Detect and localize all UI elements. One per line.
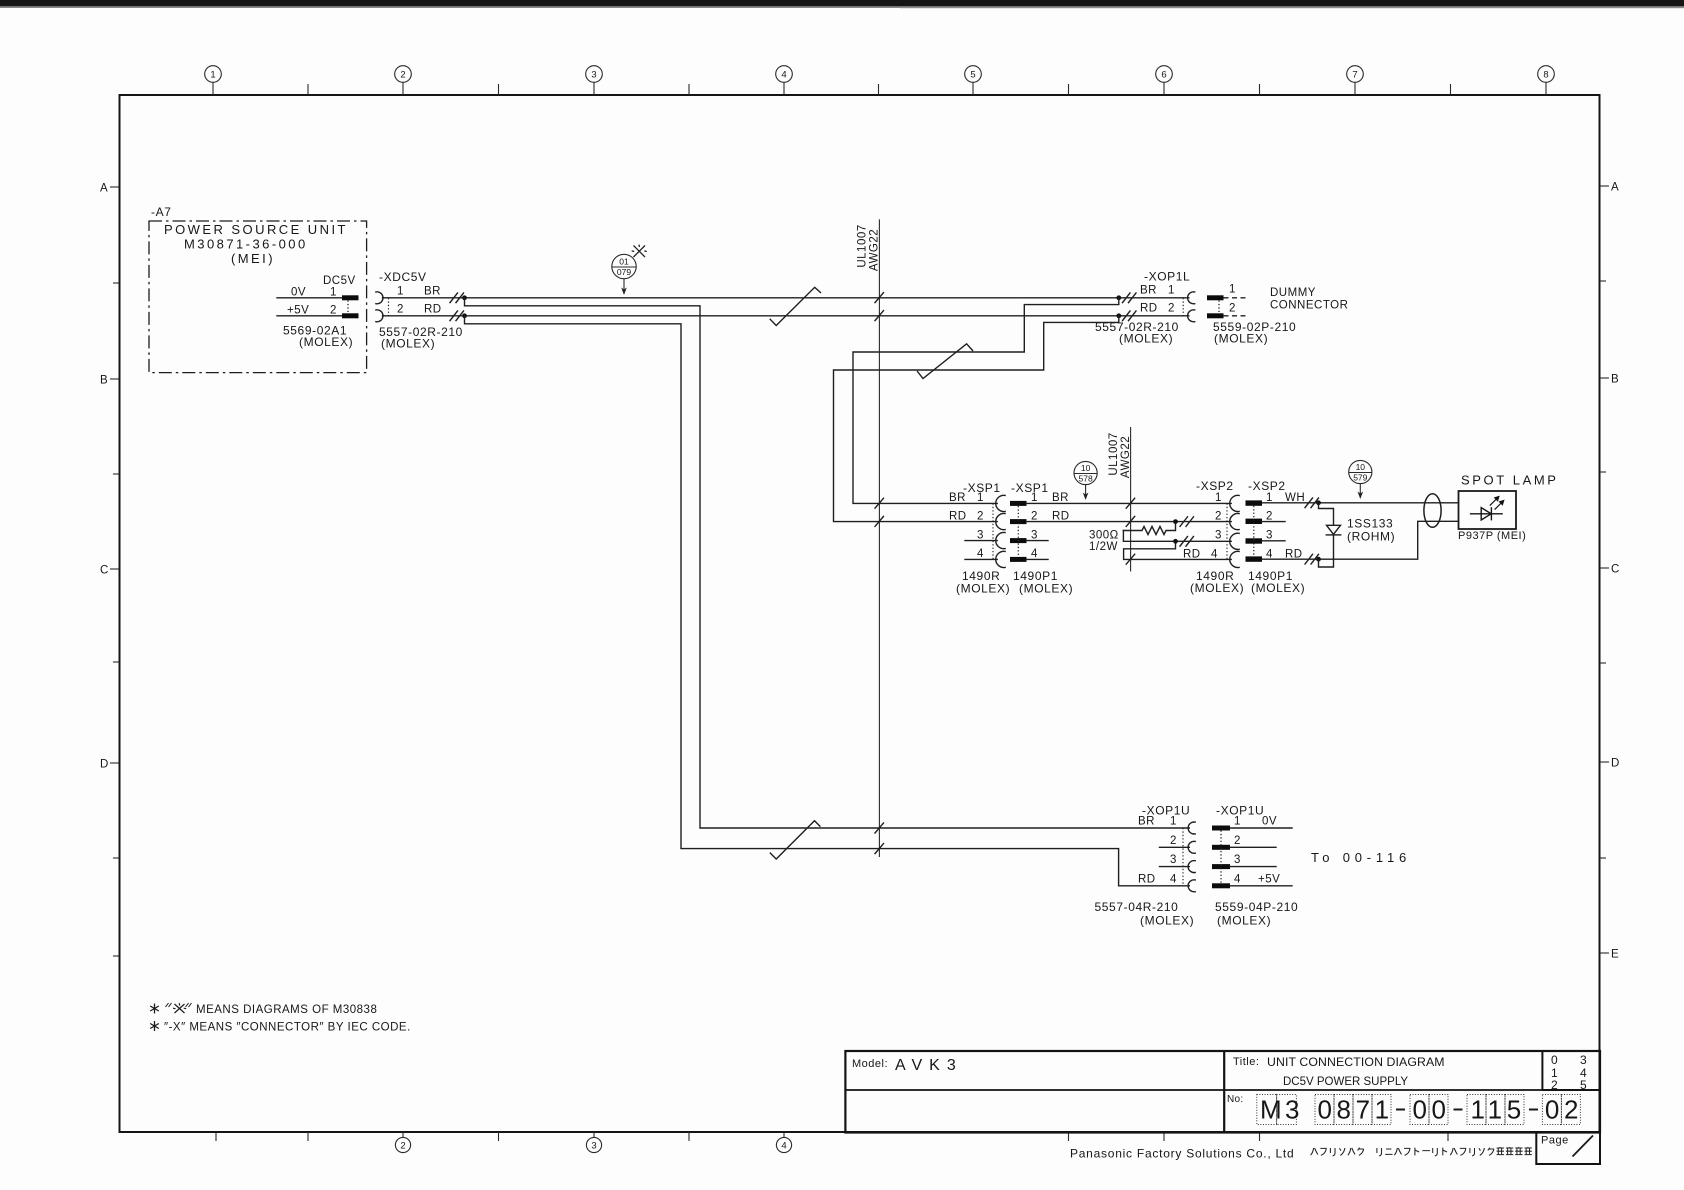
svg-text:2: 2 [1551, 1078, 1558, 1092]
svg-text:5557-04R-210: 5557-04R-210 [1095, 900, 1179, 914]
svg-text:(MOLEX): (MOLEX) [956, 582, 1010, 596]
wire RD XDC5V.2 to XOP1L.2 [383, 315, 1189, 317]
svg-text:A: A [100, 183, 108, 195]
wire BR branch XOP1L to XSP1.1 [853, 298, 1119, 504]
connector XDC5V part label 5557-02R-210 [379, 325, 463, 351]
connector XSP1 part label 1490R [956, 569, 1010, 596]
connector 5559-02P-210 part label [1213, 320, 1296, 346]
svg-text:579: 579 [1353, 473, 1367, 483]
reference arrow down to BR wire [621, 279, 627, 295]
svg-text:2: 2 [977, 510, 984, 522]
drawing number cells 02 (dotted boxes) [1542, 1095, 1580, 1125]
connector XOP1L receptacle link (dotted) [1182, 298, 1184, 316]
svg-text:5: 5 [970, 70, 975, 81]
top ruler column marker 8 [1538, 66, 1555, 95]
junction dot RD diode node [1316, 557, 1321, 562]
bottom ruler ticks [216, 1132, 1448, 1141]
svg-text:2: 2 [1229, 303, 1236, 315]
wire count marks // on RD wire [1305, 554, 1319, 564]
svg-text:4: 4 [977, 548, 984, 560]
svg-text:UNIT CONNECTION DIAGRAM: UNIT CONNECTION DIAGRAM [1267, 1055, 1445, 1069]
wire XOP1U.4 stub to +5V [1230, 885, 1292, 887]
page box [1536, 1133, 1600, 1165]
svg-text:300Ω: 300Ω [1089, 530, 1119, 542]
title block horizontal divider [845, 1089, 1600, 1091]
junction dot XOP1L.2 branch [1116, 313, 1121, 318]
svg-text:(MOLEX): (MOLEX) [1119, 332, 1173, 346]
connector XSP1 receptacle contact 1 [996, 495, 1005, 511]
svg-text:-XOP1L: -XOP1L [1144, 270, 1190, 284]
svg-text:3: 3 [977, 529, 984, 541]
svg-text:8: 8 [1543, 70, 1548, 81]
left ruler row letter D [100, 759, 119, 771]
svg-text:UL1007: UL1007 [1108, 432, 1120, 475]
svg-text:B: B [100, 375, 108, 387]
svg-text:1SS133: 1SS133 [1347, 517, 1393, 531]
svg-text:3: 3 [1266, 530, 1273, 542]
connector XOP1L receptacle contact 1 [1188, 292, 1195, 304]
svg-text:1: 1 [1031, 492, 1038, 504]
svg-text:578: 578 [1079, 474, 1093, 484]
svg-text:10: 10 [1356, 462, 1366, 472]
svg-text:3: 3 [1234, 854, 1241, 866]
cable bundle marker on BR/RD pair [770, 287, 820, 325]
top ruler column marker 3 [586, 66, 603, 95]
connector XDC5V receptacle contact 1 [376, 292, 383, 304]
connector XSP1 plug link (dotted) [1017, 506, 1019, 557]
junction dot XSP2 pin2 node [1173, 519, 1178, 524]
wire count marks // on BR near XOP1L [1123, 293, 1137, 303]
cable UL1007 AWG22 run line (right) [1130, 427, 1132, 572]
svg-text:3: 3 [1580, 1053, 1587, 1067]
junction dot XSP2 pin3 node [1173, 539, 1178, 544]
wire XOP1U.3 stub [1230, 866, 1276, 868]
svg-text:3: 3 [1031, 529, 1038, 541]
svg-text:SPOT LAMP: SPOT LAMP [1461, 473, 1559, 488]
connector XOP1U receptacle contact 2 [1188, 841, 1195, 853]
cable sleeve oval [1424, 494, 1441, 528]
connector XOP1U part label 5557-04R-210 [1095, 900, 1195, 928]
svg-text:0V: 0V [1262, 816, 1277, 828]
svg-text:1: 1 [330, 287, 337, 299]
svg-text:DC5V POWER SUPPLY: DC5V POWER SUPPLY [1283, 1076, 1408, 1088]
svg-text:To 00-116: To 00-116 [1311, 850, 1411, 865]
svg-text:2: 2 [330, 305, 337, 317]
svg-text:+5V: +5V [1258, 873, 1280, 885]
svg-text:B: B [1611, 374, 1619, 386]
diode D 1SS133 symbol [1326, 525, 1340, 535]
svg-text:-A7: -A7 [151, 205, 171, 219]
bottom ruler column marker 3 [586, 1132, 601, 1153]
connector XSP2 part label 1490R [1190, 569, 1244, 595]
connector XSP1 unused stub pin 4 right [1027, 558, 1049, 560]
wire RD branch down to XOP1U.4 [465, 316, 1190, 886]
bottom ruler column digits [400, 1141, 786, 1152]
svg-text:A: A [1611, 182, 1619, 194]
wire 0V inside unit [277, 297, 342, 299]
svg-text:AWG22: AWG22 [869, 229, 881, 271]
svg-text:RD: RD [1140, 303, 1158, 315]
connector XOP1U unused stub pin 2 left [1160, 846, 1190, 848]
cable bundle marker on XOP1U feed pair [770, 821, 820, 859]
wire XOP1U.2 stub [1230, 846, 1276, 848]
svg-text:4: 4 [781, 1141, 786, 1152]
resistor value label 300ohm 1/2W [1089, 530, 1119, 554]
connector XSP2 male pin 2 [1246, 519, 1263, 524]
wire count marks // on XSP2 pin2 wire [1180, 517, 1194, 527]
note 1 asterisk [150, 1004, 159, 1014]
connector XSP1 male pin 1 [1010, 501, 1027, 506]
title block vertical divider [1223, 1051, 1225, 1133]
svg-text:CONNECTOR: CONNECTOR [1270, 300, 1348, 312]
svg-text:RD: RD [1052, 510, 1070, 522]
svg-text:00: 00 [1413, 1095, 1451, 1125]
revision numbers column 1 [1551, 1053, 1558, 1092]
connector XOP1U receptacle contact 1 [1188, 822, 1195, 834]
revision numbers column 2 [1580, 1053, 1587, 1092]
connector XSP1 part label 1490P1 [1013, 569, 1073, 596]
drawing number cells M3 (dotted boxes) [1257, 1095, 1297, 1125]
svg-text:(MOLEX): (MOLEX) [1217, 914, 1271, 928]
connector XOP1U unused stub pin 3 left [1160, 866, 1190, 868]
revision mini box [1542, 1051, 1600, 1090]
drawing number cells 0871 (dotted boxes) [1315, 1095, 1391, 1125]
page slash [1573, 1136, 1594, 1157]
svg-text:(ROHM): (ROHM) [1347, 530, 1395, 544]
cable crossing ticks on UL1007 left line [875, 293, 884, 854]
svg-text:0871: 0871 [1318, 1095, 1394, 1125]
svg-text:079: 079 [617, 267, 631, 277]
svg-text:RD: RD [949, 510, 967, 522]
svg-text:1: 1 [1168, 285, 1175, 297]
dummy connector male pin 2 [1207, 313, 1224, 318]
connector XSP2 male pin 3 [1246, 538, 1263, 543]
connector XOP1U receptacle link (dotted) [1182, 828, 1184, 886]
top ruler column marker 7 [1347, 66, 1364, 95]
svg-text:4: 4 [1234, 873, 1241, 885]
connector XSP2 male pin 1 [1246, 500, 1263, 505]
svg-text:3: 3 [591, 1141, 596, 1152]
junction dot XOP1L.1 branch [1116, 295, 1121, 300]
svg-text:2: 2 [1168, 303, 1175, 315]
spot lamp enclosure box [1459, 491, 1517, 529]
left ruler half ticks [113, 283, 119, 956]
connector XSP1 receptacle contact 3 [996, 533, 1005, 549]
left ruler row letter B [100, 375, 119, 387]
connector XDC5V receptacle contact 2 [376, 310, 383, 322]
connector XOP1L receptacle contact 2 [1188, 310, 1195, 322]
right ruler row letter B [1600, 374, 1619, 386]
right ruler row letter D [1600, 758, 1620, 770]
svg-text:2: 2 [397, 304, 404, 316]
svg-text:BR: BR [949, 492, 966, 504]
right ruler row letter E [1600, 949, 1619, 961]
svg-text:3: 3 [591, 70, 596, 81]
bottom ruler column marker 4 [776, 1132, 791, 1153]
drawing number cells 00 (dotted boxes) [1410, 1095, 1448, 1125]
svg-text:+5V: +5V [287, 305, 309, 317]
svg-text:3: 3 [1170, 854, 1177, 866]
connector XSP2 receptacle contact 1 [1230, 495, 1239, 511]
top ruler column marker 4 [776, 66, 793, 95]
svg-text:No:: No: [1227, 1094, 1243, 1105]
connector XSP2 unused stub pin 3 right [1262, 540, 1285, 542]
dummy connector stub 1 (dashed) [1224, 297, 1248, 299]
wire RD XSP2.4 to lamp [1262, 521, 1459, 559]
top ruler half ticks [308, 84, 1451, 95]
svg-text:4: 4 [1211, 548, 1218, 560]
svg-text:2: 2 [1170, 835, 1177, 847]
svg-text:Model:: Model: [852, 1058, 888, 1070]
diode D 1SS133 anode lead [1319, 503, 1334, 526]
wire BR XDC5V.1 to XOP1L.1 [383, 297, 1189, 299]
right ruler row letter C [1600, 564, 1620, 576]
svg-text:Title:: Title: [1233, 1056, 1259, 1068]
svg-text:-XSP1: -XSP1 [1011, 481, 1049, 495]
top ruler column digits [210, 70, 1548, 81]
svg-text:2: 2 [1234, 835, 1241, 847]
svg-text:(MOLEX): (MOLEX) [1214, 332, 1268, 346]
note 1 kome mark in quotes [166, 1003, 192, 1013]
svg-text:(MOLEX): (MOLEX) [1190, 581, 1244, 595]
svg-text:2: 2 [400, 1141, 405, 1152]
svg-text:5: 5 [1580, 1078, 1587, 1092]
connector XSP1 unused stub pin 4 left [965, 558, 997, 560]
right ruler half ticks [1600, 281, 1606, 858]
top ruler column marker 1 [205, 66, 222, 95]
wire count marks // on WH wire [1305, 498, 1319, 508]
svg-text:(MOLEX): (MOLEX) [299, 335, 353, 349]
dash separator 2 [1454, 1109, 1463, 1111]
top ruler column marker 5 [965, 66, 982, 95]
svg-text:(MOLEX): (MOLEX) [1251, 581, 1305, 595]
connector XSP1 male pin 4 [1010, 557, 1027, 562]
svg-text:1: 1 [1215, 492, 1222, 504]
svg-text:BR: BR [1052, 492, 1069, 504]
svg-text:MEANS DIAGRAMS OF M30838: MEANS DIAGRAMS OF M30838 [196, 1004, 377, 1016]
svg-text:1: 1 [1234, 816, 1241, 828]
svg-text:UL1007: UL1007 [857, 224, 869, 267]
svg-text:BR: BR [1140, 285, 1157, 297]
reference circle 10/578 [1074, 461, 1097, 484]
svg-text:(MEI): (MEI) [231, 251, 275, 266]
svg-text:M3: M3 [1260, 1095, 1303, 1125]
top ruler column marker 6 [1156, 66, 1173, 95]
connector XSP2 unused stub pin 2 right [1262, 521, 1285, 523]
svg-text:2: 2 [1031, 510, 1038, 522]
connector 5569-02A1 part label [283, 324, 353, 350]
connector XSP2 part label 1490P1 [1248, 569, 1305, 595]
svg-text:4: 4 [781, 70, 786, 81]
svg-text:01: 01 [619, 257, 629, 267]
svg-text:1/2W: 1/2W [1089, 541, 1118, 553]
connector XOP1U male pin 4 [1212, 883, 1230, 888]
svg-text:1: 1 [1229, 284, 1236, 296]
connector XSP1 unused stub pin 3 right [1027, 540, 1049, 542]
LED light emission arrows [1490, 497, 1504, 510]
svg-text:115: 115 [1471, 1095, 1526, 1125]
wire count marks // on XSP2 pin3 wire [1180, 537, 1194, 547]
svg-text:RD: RD [424, 304, 442, 316]
dummy connector name label [1270, 287, 1348, 312]
connector XSP2 receptacle contact 3 [1230, 533, 1239, 549]
svg-text:M30871-36-000: M30871-36-000 [184, 237, 308, 252]
svg-text:1: 1 [397, 286, 404, 298]
svg-text:7: 7 [1352, 70, 1357, 81]
svg-text:(MOLEX): (MOLEX) [1019, 582, 1073, 596]
svg-text:3: 3 [1215, 530, 1222, 542]
svg-text:2: 2 [400, 70, 405, 81]
svg-text:2: 2 [1215, 510, 1222, 522]
svg-text:(MOLEX): (MOLEX) [381, 337, 435, 351]
svg-text:-XSP2: -XSP2 [1248, 479, 1286, 493]
connector XSP1 receptacle link (dotted) [992, 503, 994, 559]
left ruler row letter A [100, 183, 119, 195]
svg-text:5559-04P-210: 5559-04P-210 [1215, 900, 1298, 914]
svg-text:1: 1 [977, 492, 984, 504]
svg-text:-XDC5V: -XDC5V [379, 270, 427, 284]
wire WH XSP2.1 to lamp [1262, 502, 1459, 504]
wire count marks // on RD near XOP1L [1123, 311, 1137, 321]
note 2 asterisk [150, 1021, 159, 1031]
svg-text:″-X″ MEANS ″CONNECTOR″ BY IEC: ″-X″ MEANS ″CONNECTOR″ BY IEC CODE. [164, 1022, 411, 1034]
svg-text:0V: 0V [291, 287, 306, 299]
svg-text:0: 0 [1551, 1053, 1558, 1067]
wire XSP1.2 to XSP2.2 [1027, 521, 1232, 523]
connector XOP1U male pin 3 [1212, 864, 1230, 869]
connector XOP1U male pin 2 [1212, 845, 1230, 850]
connector XSP2 receptacle contact 2 [1230, 514, 1239, 530]
cable crossing ticks on UL1007 right line [1126, 498, 1135, 564]
wire XSP1.1 to XSP2.1 [1027, 502, 1232, 504]
svg-text:POWER SOURCE UNIT: POWER SOURCE UNIT [164, 222, 348, 237]
wire count marks // on RD near XDC5V [450, 311, 464, 321]
svg-text:Page: Page [1541, 1135, 1569, 1147]
svg-text:AVK3: AVK3 [895, 1057, 963, 1074]
dummy connector stub 2 (dashed) [1224, 315, 1248, 317]
diode D 1SS133 cathode lead [1319, 535, 1334, 567]
wire XOP1U.1 stub to 0V [1230, 827, 1292, 829]
junction dot RD branch at x464 [462, 313, 467, 318]
LED symbol inside lamp [1470, 507, 1503, 520]
footer company name japanese (vector strokes) [1311, 1147, 1532, 1156]
bottom ruler column marker 2 [395, 1132, 410, 1153]
reference circle 01/079 [612, 254, 636, 278]
connector 5569-02A1 male pin 2 [342, 313, 359, 318]
drawing border frame [120, 95, 1600, 1132]
svg-text:2: 2 [1266, 510, 1273, 522]
reference arrow to XSP1 wire [1083, 485, 1089, 500]
connector XOP1U receptacle contact 3 [1188, 861, 1195, 873]
svg-text:-XSP2: -XSP2 [1196, 479, 1234, 493]
svg-text:BR: BR [1138, 816, 1155, 828]
svg-text:RD: RD [1138, 873, 1156, 885]
svg-text:AWG22: AWG22 [1120, 436, 1132, 478]
wire bracket resistor to pin3 row [1123, 531, 1231, 542]
connector XSP1 male pin 3 [1010, 538, 1027, 543]
dummy connector male pin 1 [1207, 295, 1224, 300]
reference arrow to WH wire [1358, 484, 1364, 499]
wire jog pin3 row to pin4 row [1124, 541, 1232, 559]
svg-text:P937P (MEI): P937P (MEI) [1458, 530, 1526, 542]
connector 5559-04P-210 part label [1215, 900, 1298, 928]
dash separator 3 [1529, 1109, 1538, 1111]
svg-text:4: 4 [1170, 873, 1177, 885]
resistor R 300ohm lead and element [1123, 522, 1175, 535]
wire RD branch XOP1L to XSP1.2 [834, 316, 1119, 522]
svg-text:C: C [100, 565, 109, 577]
connector XOP1U plug link (dotted) [1220, 831, 1222, 884]
svg-text:6: 6 [1161, 70, 1166, 81]
connector XOP1U receptacle contact 4 [1188, 880, 1195, 892]
wire +5V inside unit [277, 315, 342, 317]
connector XSP1 male pin 2 [1010, 519, 1027, 524]
connector XSP1 unused stub pin 3 left [965, 540, 997, 542]
junction dot BR branch at x464 [462, 295, 467, 300]
svg-text:02: 02 [1545, 1095, 1583, 1125]
svg-text:BR: BR [424, 286, 441, 298]
connector XSP2 receptacle contact 4 [1230, 551, 1239, 567]
connector XSP2 male pin 4 [1246, 556, 1263, 561]
connector 5569-02A1 male pin 1 [342, 295, 359, 300]
dash separator 1 [1396, 1109, 1405, 1111]
connector XOP1U male pin 1 [1212, 826, 1230, 831]
cable bundle marker on XSP1 feed pair [918, 344, 973, 379]
left ruler row letter C [100, 565, 119, 577]
note reference mark (kome) [632, 245, 647, 257]
svg-text:Panasonic Factory Solutions Co: Panasonic Factory Solutions Co., Ltd [1070, 1147, 1294, 1161]
power source unit title text [164, 222, 348, 266]
scan artifact: black bar at top edge [0, 0, 1684, 8]
svg-text:E: E [1611, 949, 1619, 961]
svg-text:1: 1 [210, 70, 215, 81]
top ruler column marker 2 [395, 66, 412, 95]
svg-text:DC5V: DC5V [323, 275, 356, 287]
svg-text:C: C [1611, 564, 1620, 576]
connector XSP1 receptacle contact 4 [996, 551, 1005, 567]
svg-text:RD: RD [1183, 548, 1201, 560]
svg-text:DUMMY: DUMMY [1270, 287, 1316, 299]
connector 5569-02A1 pin link (dotted) [347, 301, 349, 314]
wire count marks // on BR near XDC5V [450, 293, 464, 303]
svg-text:10: 10 [1081, 463, 1091, 473]
drawing number cells 115 (dotted boxes) [1467, 1095, 1524, 1125]
connector XSP1 receptacle contact 2 [996, 514, 1005, 530]
wire BR branch down to XOP1U.1 [465, 298, 1190, 828]
connector XSP2 receptacle link (dotted) [1226, 503, 1228, 559]
svg-text:1: 1 [1170, 816, 1177, 828]
connector XOP1L part label 5557-02R-210 [1095, 320, 1179, 346]
connector XDC5V receptacle link (dotted) [388, 298, 390, 316]
title block outer box [845, 1051, 1600, 1133]
diode part label 1SS133 (ROHM) [1347, 517, 1395, 544]
power source unit A7 enclosure (dash-dot box) [149, 221, 367, 373]
svg-text:D: D [100, 759, 109, 771]
connector XSP2 plug link (dotted) [1253, 506, 1255, 557]
dummy connector pin link (dotted) [1218, 301, 1220, 314]
svg-text:D: D [1611, 758, 1620, 770]
cable UL1007 AWG22 run line (left) [878, 219, 880, 857]
junction dot WH diode node [1316, 500, 1321, 505]
right ruler row letter A [1600, 182, 1619, 194]
svg-text:4: 4 [1031, 548, 1038, 560]
svg-text:(MOLEX): (MOLEX) [1140, 914, 1194, 928]
reference circle 10/579 [1349, 460, 1372, 483]
